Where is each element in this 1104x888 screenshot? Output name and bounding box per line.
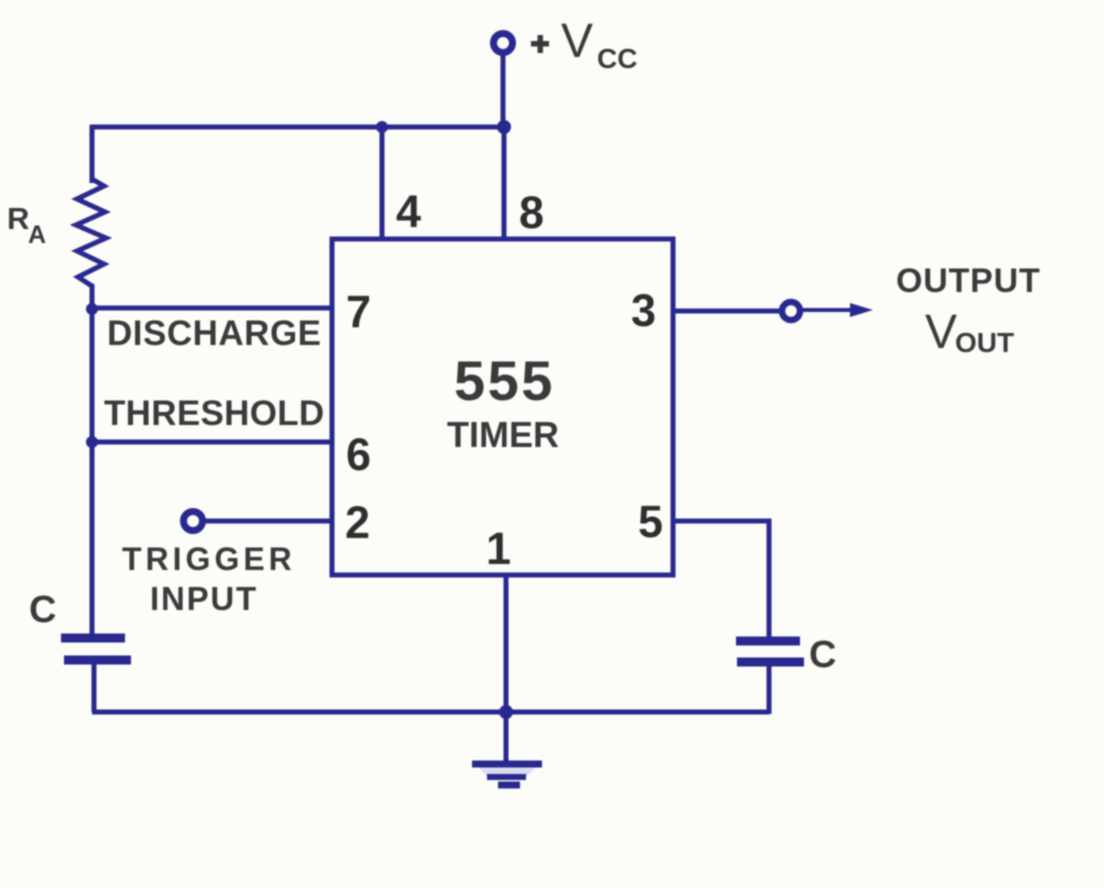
arrowhead output (850, 303, 873, 317)
ground scan artifact (478, 767, 536, 777)
wire left vertical mid (90, 308, 95, 443)
svg-text:2: 2 (345, 497, 370, 548)
svg-text:1: 1 (486, 523, 511, 574)
svg-text:TIMER: TIMER (447, 414, 559, 455)
svg-text:OUTPUT: OUTPUT (896, 262, 1041, 300)
svg-text:6: 6 (346, 429, 371, 480)
capacitor C left (61, 638, 131, 660)
wire pin 1 to ground (504, 575, 509, 762)
terminal trigger input (184, 512, 203, 531)
ground (472, 764, 542, 785)
svg-text:5: 5 (638, 496, 663, 547)
wire pin 5 (673, 521, 769, 639)
svg-text:OUT: OUT (955, 327, 1014, 358)
junction discharge node (86, 303, 98, 315)
svg-text:A: A (28, 221, 46, 249)
wire output to arrow (802, 308, 852, 312)
svg-text:CC: CC (597, 43, 637, 74)
svg-text:V: V (561, 15, 593, 68)
junction threshold node (86, 436, 98, 448)
svg-text:4: 4 (396, 186, 421, 237)
wire left vertical upper (90, 125, 95, 183)
svg-text:C: C (29, 589, 56, 631)
svg-text:C: C (809, 634, 836, 676)
junction pin1 bottom rail (499, 705, 513, 719)
wire pin 3 output (673, 309, 779, 314)
svg-text:THRESHOLD: THRESHOLD (104, 394, 324, 433)
capacitor C right (736, 641, 804, 662)
wire resistor to discharge node (90, 284, 95, 310)
label +Vcc (531, 15, 637, 74)
wire threshold pin6 (92, 440, 332, 445)
wire top rail (90, 125, 510, 130)
junction pin4 top rail (376, 121, 388, 133)
wire C left to bottom rail (92, 664, 97, 712)
label Vout (925, 306, 1014, 359)
svg-text:INPUT: INPUT (150, 580, 258, 617)
svg-text:DISCHARGE: DISCHARGE (107, 314, 322, 353)
wire left vertical lower (90, 442, 95, 634)
terminal Vcc (494, 34, 513, 53)
svg-text:555: 555 (454, 349, 555, 412)
wire pin 8 (502, 127, 507, 240)
svg-text:8: 8 (519, 187, 544, 238)
svg-text:TRIGGER: TRIGGER (122, 541, 296, 577)
junction Vcc top rail (497, 120, 511, 134)
terminal output (782, 302, 800, 320)
wire C right to bottom rail (767, 666, 772, 714)
wire bottom rail (92, 710, 769, 715)
wire pin 4 (380, 127, 385, 240)
wire trigger pin2 (204, 519, 332, 524)
svg-text:V: V (925, 306, 957, 359)
IC U1 555 box (332, 239, 673, 575)
resistor RA (76, 179, 106, 286)
wire discharge pin7 (92, 306, 332, 311)
svg-text:R: R (7, 201, 29, 236)
svg-text:3: 3 (631, 285, 656, 336)
wire Vcc stem (501, 53, 506, 130)
svg-text:7: 7 (346, 286, 371, 337)
